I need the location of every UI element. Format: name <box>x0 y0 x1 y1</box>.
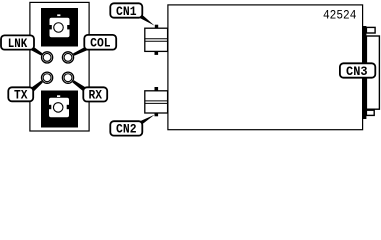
label CN2 <box>110 121 142 137</box>
label TX <box>8 87 33 102</box>
svg-text:COL: COL <box>90 36 111 51</box>
label COL <box>84 35 116 51</box>
LED TX (bottom-left) <box>42 72 53 83</box>
callout tail RX <box>72 80 89 92</box>
svg-text:TX: TX <box>14 88 28 103</box>
connector CN1 (header on left board edge, top) <box>145 25 168 55</box>
callout tail CN2 <box>136 115 155 125</box>
svg-text:CN3: CN3 <box>346 64 368 79</box>
connector CN2 (header on left board edge, bottom) <box>145 87 168 116</box>
callout tail LNK <box>28 46 43 55</box>
LED COL (top-right) <box>62 52 73 63</box>
callout tail COL <box>73 47 91 56</box>
label LNK <box>1 35 34 50</box>
label RX <box>83 87 107 102</box>
svg-text:42524: 42524 <box>323 7 357 22</box>
svg-text:CN2: CN2 <box>116 122 137 137</box>
svg-text:CN1: CN1 <box>116 4 137 19</box>
label CN3 <box>340 63 375 79</box>
connector CN3 (edge connector, right side) <box>362 26 379 119</box>
callout tail TX <box>27 81 43 93</box>
connector (bottom ST fiber port) body <box>41 91 78 128</box>
LED RX (bottom-right) <box>62 72 73 83</box>
connector (top ST fiber port) body <box>41 8 78 47</box>
left transceiver module outline <box>30 2 89 131</box>
callout tail CN1 <box>136 14 155 26</box>
LED LNK (top-left) <box>42 52 53 63</box>
label CN1 <box>110 3 142 18</box>
svg-text:LNK: LNK <box>8 36 28 51</box>
svg-text:RX: RX <box>88 88 102 103</box>
main PCB outline <box>168 5 363 130</box>
